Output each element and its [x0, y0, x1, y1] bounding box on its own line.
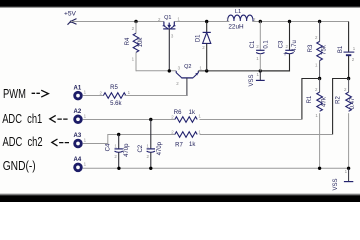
- resistor R6: [174, 110, 197, 122]
- wire Q2 base to PWM row: [125, 78, 187, 96]
- node Q1 base / Q2 collector: [168, 69, 171, 72]
- label ADC ch1 arrow: [50, 115, 68, 122]
- supply +5V: [64, 11, 77, 25]
- svg-text:470p: 470p: [157, 141, 163, 155]
- svg-text:VSS: VSS: [249, 74, 255, 86]
- label ADC ch2 arrow: [52, 139, 69, 146]
- resistor R1: [307, 79, 327, 169]
- svg-text:A2: A2: [74, 109, 82, 115]
- wire ground rail: [83, 167, 349, 169]
- wire L1 to output rail right corner: [252, 21, 348, 23]
- resistor R5: [103, 85, 125, 107]
- node C2 bottom: [149, 167, 152, 170]
- wire tap to ADC ch2 row: [200, 134, 333, 136]
- node C3 top: [288, 20, 291, 23]
- svg-text:B1: B1: [338, 45, 344, 53]
- wire Q1 base drop: [168, 29, 170, 71]
- transistor Q1: [163, 15, 176, 29]
- svg-text:A3: A3: [74, 133, 82, 139]
- node R3 top: [318, 20, 321, 23]
- svg-text:R6: R6: [174, 110, 182, 116]
- svg-text:GND(-): GND(-): [3, 160, 36, 173]
- svg-text:VSS: VSS: [333, 178, 339, 190]
- wire tap down to ADC ch1 row: [200, 119, 302, 121]
- svg-text:+5V: +5V: [64, 11, 77, 18]
- connector pin A2: [74, 109, 87, 123]
- resistor R4: [125, 22, 144, 72]
- diode D1: [195, 22, 211, 71]
- ground VSS symbol at C1: [249, 71, 265, 87]
- wire R4 bottom to Q2 collector: [136, 70, 176, 72]
- svg-text:D1: D1: [195, 34, 201, 42]
- svg-text:C3: C3: [279, 40, 285, 48]
- svg-text:R7: R7: [175, 142, 183, 148]
- node C2 tap: [149, 118, 152, 121]
- wire A1 to R5: [83, 95, 104, 97]
- node R3/R1 junction: [318, 77, 321, 80]
- svg-text:C4: C4: [106, 143, 112, 151]
- connector pin A3: [74, 133, 87, 147]
- wire +5V rail to Q1: [71, 21, 164, 23]
- svg-text:Q2: Q2: [184, 64, 191, 70]
- svg-text:C2: C2: [138, 144, 144, 152]
- svg-text:1k: 1k: [189, 142, 196, 148]
- svg-text:22uH: 22uH: [228, 23, 244, 30]
- svg-text:0.1: 0.1: [264, 40, 270, 49]
- svg-text:PWM: PWM: [3, 88, 26, 102]
- label PWM arrow: [32, 90, 49, 97]
- svg-text:1k: 1k: [189, 110, 196, 116]
- node R2 bottom: [347, 167, 350, 170]
- wire Q2 emitter VSS run: [198, 70, 289, 72]
- resistor R2: [336, 79, 356, 169]
- svg-text:5.6k: 5.6k: [110, 101, 122, 107]
- node C4 tap: [117, 133, 120, 136]
- svg-text:Q1: Q1: [164, 15, 171, 21]
- wire battery tap to R7: [333, 79, 349, 135]
- connector pin A1: [74, 85, 87, 99]
- capacitor C1: [250, 22, 270, 71]
- battery B1: [338, 22, 354, 79]
- wire Q1 collector to L1: [174, 21, 229, 23]
- inductor L1: [228, 9, 253, 30]
- svg-text:ADC ch1: ADC ch1: [2, 113, 42, 127]
- resistor R7: [175, 132, 197, 149]
- svg-text:470p: 470p: [124, 143, 130, 157]
- ground VSS symbol bottom right: [333, 168, 353, 190]
- wire A3 jog up to R7 row: [83, 135, 175, 144]
- capacitor C3: [260, 22, 298, 71]
- svg-text:A1: A1: [74, 85, 82, 91]
- connector pin A4: [74, 157, 87, 171]
- capacitor C4: [106, 135, 130, 169]
- svg-text:R2: R2: [336, 96, 342, 104]
- svg-text:R3: R3: [308, 44, 314, 52]
- svg-text:R5: R5: [110, 85, 118, 91]
- node D1 top: [205, 20, 208, 23]
- node C4 bottom: [117, 167, 120, 170]
- capacitor C2: [138, 120, 163, 169]
- node R1 bottom: [318, 167, 321, 170]
- node C1 bottom / VSS: [259, 69, 262, 72]
- node B1/R2 junction: [347, 77, 350, 80]
- wire feedback tap to R6: [302, 79, 320, 120]
- node C1 top: [259, 20, 262, 23]
- svg-text:C1: C1: [250, 40, 256, 48]
- resistor R3: [308, 22, 328, 79]
- wire R5 to Q2 base: [125, 95, 187, 97]
- node R4 top: [134, 20, 137, 23]
- svg-text:R4: R4: [125, 37, 131, 45]
- svg-text:ADC ch2: ADC ch2: [3, 136, 43, 150]
- svg-text:47k: 47k: [322, 96, 328, 107]
- wire A2 to R6: [83, 119, 175, 121]
- node D1 anode: [205, 69, 208, 72]
- svg-text:R1: R1: [307, 95, 313, 103]
- svg-text:A4: A4: [74, 157, 82, 163]
- svg-text:L1: L1: [235, 9, 241, 15]
- transistor Q2: [176, 64, 198, 78]
